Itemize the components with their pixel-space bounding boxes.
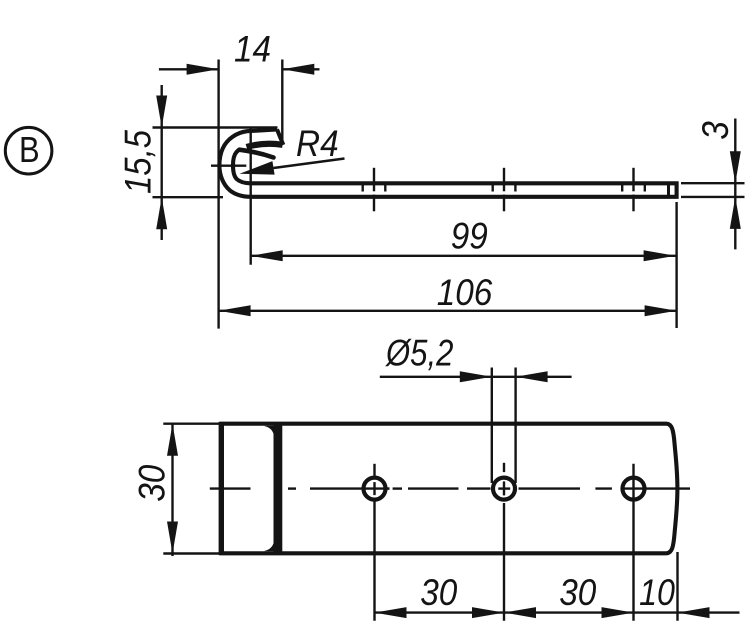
svg-text:30: 30 bbox=[559, 572, 596, 613]
svg-text:15,5: 15,5 bbox=[118, 129, 159, 194]
svg-text:B: B bbox=[19, 131, 40, 171]
svg-text:3: 3 bbox=[695, 121, 736, 140]
svg-text:Ø5,2: Ø5,2 bbox=[385, 333, 453, 374]
svg-text:30: 30 bbox=[420, 572, 457, 613]
svg-text:14: 14 bbox=[234, 29, 271, 70]
svg-text:106: 106 bbox=[437, 272, 493, 313]
svg-text:10: 10 bbox=[639, 573, 675, 614]
svg-text:99: 99 bbox=[451, 216, 488, 257]
svg-text:30: 30 bbox=[132, 464, 173, 501]
svg-text:R4: R4 bbox=[296, 123, 339, 164]
